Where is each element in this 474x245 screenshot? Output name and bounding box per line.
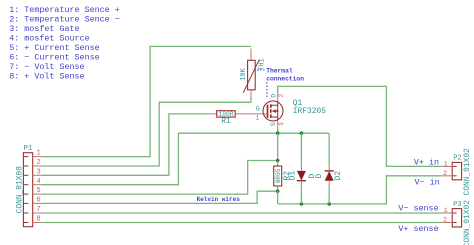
junction bottom rail at D2 [327,202,331,206]
legend pin list text [9,5,120,81]
svg-text:P2: P2 [453,154,461,162]
svg-text:3: 3 [278,122,285,126]
svg-text:Kelvin wires: Kelvin wires [197,196,241,203]
svg-text:2: 2 [443,170,447,177]
svg-text:D2: D2 [334,171,343,181]
P3 pin 2 [441,216,456,223]
svg-text:G: G [256,106,260,114]
svg-text:2: 2 [443,216,447,223]
wire R2 bottom to V- rail [277,191,279,204]
P1 pin 5 [24,187,43,195]
wire drain to P2.1 V+ in [278,86,442,166]
junction R2 bottom kelvin [276,189,280,193]
svg-text:V+ sense: V+ sense [398,224,438,234]
P2 pin 1 [441,161,456,168]
svg-text:1: 1 [36,150,40,158]
junction R2 top kelvin [276,159,280,163]
svg-text:connection: connection [266,75,304,82]
svg-text:D1: D1 [289,171,298,181]
svg-text:6: 6 [36,197,40,205]
resistor R2 shunt [274,161,292,192]
svg-text:V− sense: V− sense [398,204,438,214]
P1 pin 4 [24,178,43,186]
svg-text:1: 1 [444,207,448,214]
wire net4 mosfet Source rail from P1.4 [43,133,330,185]
svg-text:5: 5 [36,187,40,195]
svg-text:TH1: TH1 [258,58,266,70]
svg-text:2: 2 [278,93,285,97]
mosfet Q1 IRF3205 [263,99,326,121]
resistor R1 [207,111,267,126]
connector P3 [452,200,472,245]
P1 pin 3 [24,168,43,176]
svg-text:V− in: V− in [415,178,440,188]
junction source rail at Q1 [276,131,280,135]
wire V- bottom rail to P2.2 V- in [278,176,442,204]
svg-text:7: 7 [36,206,40,214]
svg-text:CONN_01X02: CONN_01X02 [463,148,472,196]
svg-text:S: S [270,122,278,126]
wire net2 Temperature Sence - from P1.2 to TH1 bottom [43,102,252,166]
Q1 drain pin with labels D 2 [271,92,285,101]
P1 pin 6 [24,197,43,205]
connector P1 [16,145,33,227]
wire source pin to rail [277,128,279,133]
svg-text:3: 3 [36,168,40,176]
svg-text:P1: P1 [24,145,33,153]
svg-text:5: + Current Sense: 5: + Current Sense [9,43,99,53]
svg-text:8: 8 [36,216,40,224]
wire net1 Temperature Sence + from P1.1 to TH1 top [43,46,252,156]
wire net5 + Current Sense kelvin from P1.5 to R2 top [43,161,278,195]
svg-text:IRF3205: IRF3205 [293,107,326,116]
svg-text:Thermal: Thermal [266,68,293,75]
svg-text:7: − Volt Sense: 7: − Volt Sense [9,62,84,72]
Q1 gate pin label G 1 [256,106,260,122]
wire net3 mosfet Gate from P1.3 to R1 [43,114,208,175]
P2 pin 2 [441,170,456,177]
svg-text:CONN_01X02: CONN_01X02 [463,200,472,245]
svg-text:4: 4 [36,178,40,186]
wire net8 + Volt Sense from P1.8 to P3.2 [43,222,442,224]
P1 pin 2 [24,159,43,167]
svg-text:R1: R1 [221,117,231,126]
svg-text:10K: 10K [240,67,248,80]
P1 pin 7 [24,206,43,214]
svg-text:1: Temperature Sence +: 1: Temperature Sence + [9,5,120,15]
wire rail down to R2 [277,133,279,160]
svg-text:3: mosfet Gate: 3: mosfet Gate [9,24,79,34]
P3 pin 1 [441,207,456,214]
P1 pin 1 [24,150,43,158]
Q1 source pin with labels S 3 [270,121,285,128]
connector P2 [452,148,472,196]
svg-text:0R05: 0R05 [275,168,282,183]
svg-text:1: 1 [444,161,448,168]
svg-text:1: 1 [256,114,260,121]
svg-text:8: + Volt Sense: 8: + Volt Sense [9,71,84,81]
note Thermal connection [257,68,304,97]
svg-text:2: 2 [36,159,40,167]
diode D2 [315,133,343,204]
thermistor TH1 [240,49,266,103]
junction source rail at D1 [300,131,304,135]
svg-text:P3: P3 [453,201,461,209]
P1 pin 8 [24,216,43,224]
svg-text:V+ in: V+ in [414,157,439,167]
wire net7 - Volt Sense from P1.7 to P3.1 [43,212,442,214]
junction bottom rail at D1 [300,202,304,206]
svg-text:CONN_01X08: CONN_01X08 [16,166,25,214]
diode D1 [289,133,317,204]
svg-text:D: D [315,173,324,178]
wire net6 - Current Sense kelvin from P1.6 to R2 bottom [43,191,278,203]
